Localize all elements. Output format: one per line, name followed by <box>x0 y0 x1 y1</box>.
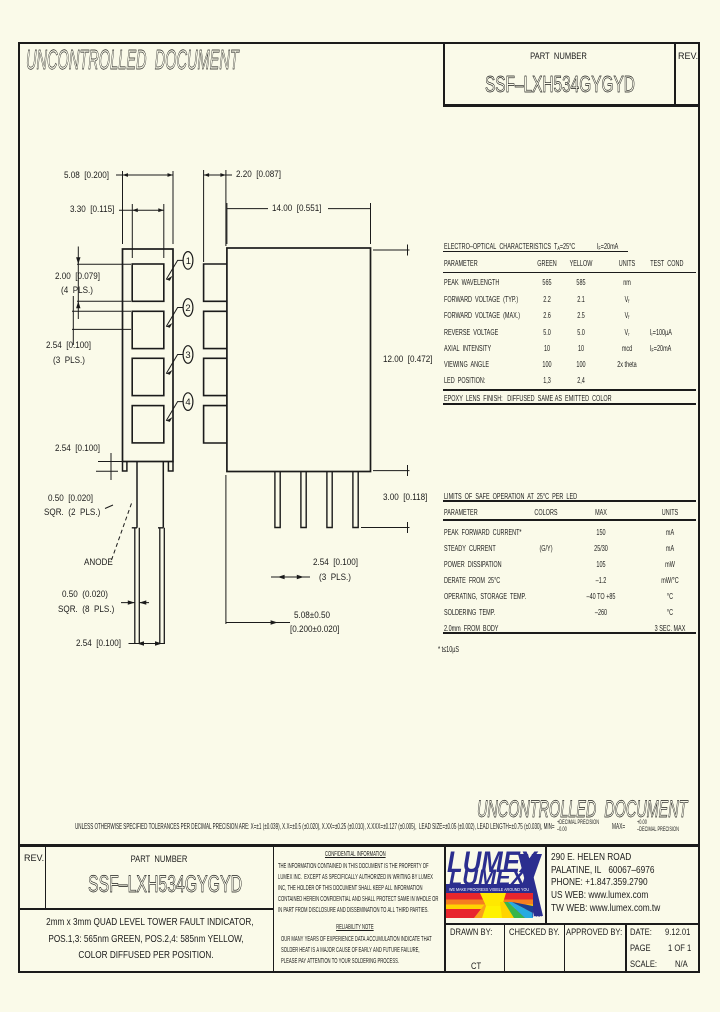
LED window 1 <box>132 264 164 301</box>
LED window 3 <box>132 358 164 395</box>
front view right foot <box>168 462 173 472</box>
description text <box>46 914 246 964</box>
dim 14.00 extension lines <box>227 203 371 244</box>
callout digits <box>185 256 191 408</box>
LED window 4 <box>132 406 164 443</box>
logo box left edge <box>444 845 446 972</box>
dim label 2.54 bottom <box>76 639 121 648</box>
dim 2.20 line with arrows <box>204 174 232 176</box>
side view pin 2 <box>301 472 306 528</box>
left dim 2.54 body extension lines <box>96 462 122 472</box>
side view pin 4 <box>353 472 358 528</box>
date page scale <box>630 928 652 938</box>
dim label 2.54 3pls left <box>46 341 91 350</box>
dim label 3.00 <box>383 493 427 502</box>
callout circle 1 <box>183 252 193 270</box>
dim label 0.50 sqr 2pls <box>48 494 93 503</box>
dim label 5.08 +- <box>294 611 330 620</box>
dim label 12.00 <box>383 355 433 364</box>
lumex logo <box>446 846 545 923</box>
bottom watermark <box>477 798 687 822</box>
side view pin 1 <box>275 472 280 528</box>
LED package front view body <box>123 249 174 462</box>
sqr 2 pls leader dash <box>105 505 113 509</box>
dim 14.00 line with arrows <box>227 208 371 210</box>
left dim 2.00 extension lines <box>77 264 131 301</box>
part number label bottom <box>68 855 250 865</box>
LED window 2 <box>132 311 164 348</box>
left dim 2.00 vertical with arrows <box>77 247 79 320</box>
dim label 2.20 <box>236 170 281 179</box>
rev label bottom <box>24 854 44 863</box>
callout circle 3 <box>183 346 193 364</box>
dim 5.08 extension lines <box>123 171 174 244</box>
left dim 2.54 body vertical tick <box>110 453 112 480</box>
dim label 0.50 sqr 8pls <box>62 590 108 599</box>
tagline banner <box>446 884 534 893</box>
dim label 2.00 4pls <box>55 272 100 281</box>
title block top line <box>18 844 700 847</box>
dim 2.20 extension lines <box>204 170 226 262</box>
left dim 2.54 pitch extension lines <box>72 311 131 329</box>
svg-text:WE MAKE PROGRESS VISIBLE AROUN: WE MAKE PROGRESS VISIBLE AROUND YOU <box>449 887 529 892</box>
dim 5.08 pin line with arrow <box>226 622 290 624</box>
side view body <box>227 248 371 472</box>
svg-text:2: 2 <box>185 303 190 314</box>
side view pin 3 <box>327 472 332 528</box>
side view lens tab 3 <box>204 358 227 395</box>
rev column divider <box>45 845 47 909</box>
callout circle 4 <box>183 393 193 411</box>
dim label 5.08 <box>64 171 109 180</box>
left dim 2.54 pitch vertical with ticks <box>72 296 74 345</box>
part number value bottom <box>88 873 242 897</box>
dim 5.08 pin extension line <box>225 475 227 624</box>
confidential box left edge <box>273 845 275 972</box>
address divider <box>545 845 547 924</box>
dim label 14.00 <box>272 204 322 213</box>
dim 3.30 line with arrows <box>119 209 164 211</box>
callout circle 2 <box>183 299 193 317</box>
dim 12.00 extension lines with end ticks <box>373 245 410 256</box>
front narrow pin right <box>160 528 165 644</box>
confidential information text <box>278 849 438 915</box>
dim 3.30 extension lines <box>132 204 164 258</box>
front narrow pin left <box>135 528 140 644</box>
bottom strip top line <box>444 923 700 925</box>
dim label 3.30 <box>70 205 114 214</box>
wide pin bottom ticks <box>132 527 164 529</box>
rev label <box>678 52 698 61</box>
part number value <box>485 73 635 96</box>
logo X leg <box>518 854 543 916</box>
side view lens tab 1 <box>204 264 227 301</box>
svg-text:INC.: INC. <box>532 913 542 919</box>
front view wide pin edges <box>137 462 163 528</box>
anode label <box>84 558 113 567</box>
drawn by <box>450 928 492 938</box>
part number / description divider line <box>18 908 274 911</box>
dim label 2.54 side pins <box>313 558 358 567</box>
svg-text:3: 3 <box>185 350 190 361</box>
svg-text:1: 1 <box>186 256 191 267</box>
bottom strip dividers <box>504 923 506 972</box>
rainbow <box>446 893 533 918</box>
side view lens tab 4 <box>204 406 227 443</box>
dim 3.00 extension line with tick <box>361 522 410 533</box>
checked by <box>509 928 560 938</box>
top watermark: uncontrolled document <box>26 46 239 74</box>
front view left foot <box>123 462 127 472</box>
dim 0.50 sqr arrows <box>121 602 149 604</box>
address text <box>551 851 660 915</box>
side view lens tab 2 <box>204 311 227 348</box>
dim 2.54 bottom line with arrows <box>129 643 166 645</box>
svg-text:4: 4 <box>185 397 190 408</box>
rev divider <box>674 42 676 104</box>
dim 5.08 line with arrows <box>116 174 174 176</box>
approved by <box>566 928 622 938</box>
anode leader dashed <box>112 501 133 561</box>
part number box (top right) <box>443 42 700 107</box>
dim 2.54 side pins line with arrows <box>271 576 310 578</box>
dim label 2.54 left <box>55 444 100 453</box>
part number label <box>466 52 651 62</box>
footnote <box>438 645 459 654</box>
